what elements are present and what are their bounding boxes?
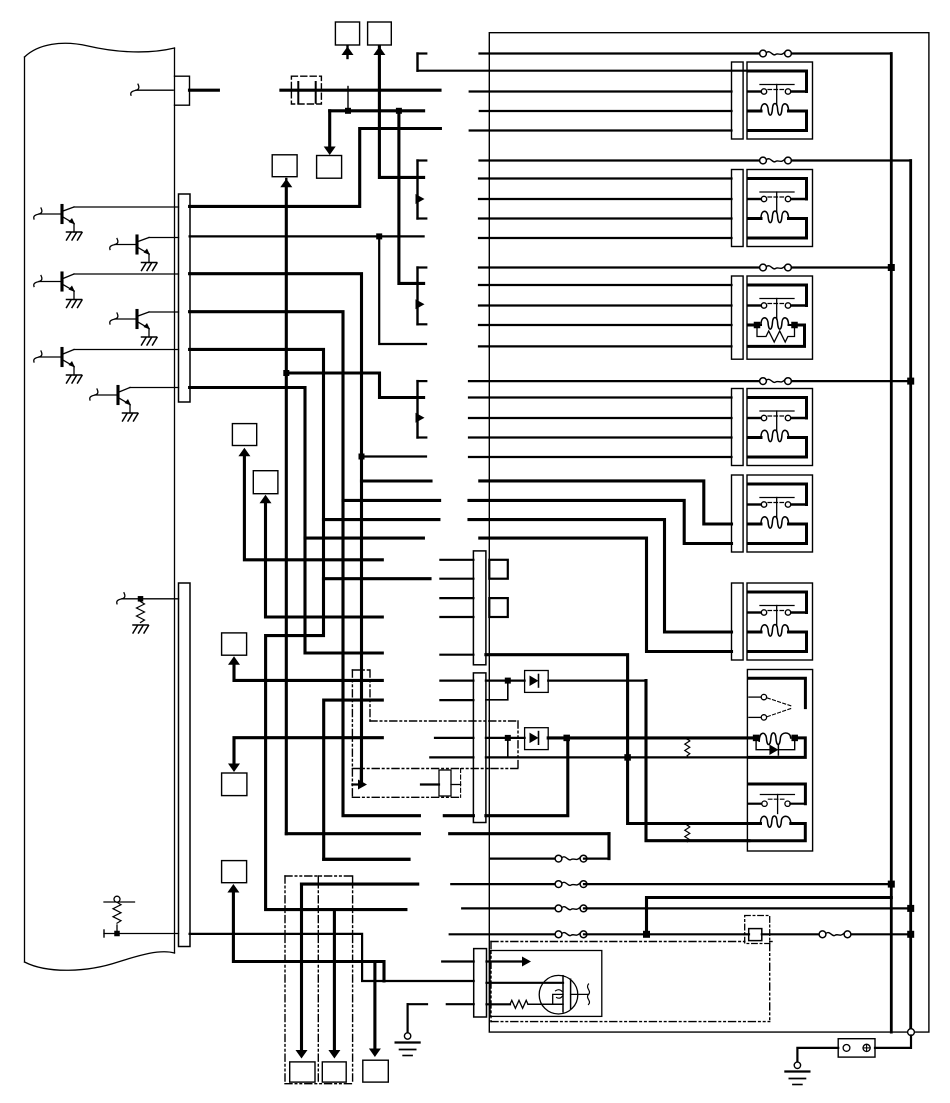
wire row to RL6 return [440,654,473,656]
resistor R1 with ground [117,593,125,604]
wire W2 drop [399,111,424,284]
fuse F1 [291,76,321,104]
wire row 859 [324,858,409,861]
connector G [222,633,247,655]
connector C [317,156,342,179]
jumper link J1 [489,560,508,579]
arrow into E [238,448,250,457]
transistor Q4 [110,313,118,324]
relay RL4 [732,389,744,466]
connector H [222,773,247,796]
wire jog to RL5 coil [480,481,732,524]
fuse FB1 [607,834,610,859]
connector A [335,22,359,45]
connector strip C3 [179,583,191,947]
wires to RL4 pins [469,396,732,398]
wires to RL2 pins [479,177,732,179]
wire row Q4 drop V4 [190,312,440,501]
resistor R3 parallel [685,739,690,756]
wire row Q5 drop V3 [190,349,439,519]
wire Q4 collector [149,311,179,313]
arrow into D [280,179,292,188]
wire drop to R3 coil row [379,236,426,344]
wire Q3 collector [74,273,179,275]
wire jog to RL6 pin4 [480,538,732,651]
fuse FA1 [480,52,763,54]
ground G2 [396,1041,420,1043]
bracket BR3 [416,268,418,325]
connector strip B1 [473,551,486,665]
wire Q2 collector [149,237,179,239]
connector E [232,424,256,446]
harness boundary lower unit [491,941,745,943]
wire row Q3 drop V5 [190,274,431,481]
wire row coil return [430,756,473,758]
fuse FA2 [480,159,763,161]
transistor Q3 [34,276,42,287]
wire A link [347,87,349,111]
wire riser to bus1 [647,898,892,935]
wire row E [440,559,473,561]
ECM/PCM module outline [25,43,175,57]
fuse FB5 [819,931,826,938]
relay RL2 [732,170,744,247]
wire battery to ground [797,1048,838,1063]
RL7 switch section [749,678,806,707]
wire row to fuse FB1 [286,832,419,835]
wire I stem [233,893,384,982]
jumper link J2 [489,598,508,617]
wire D1 drop to RL8 [646,681,749,841]
relay RL3 [732,276,744,359]
diode D3 parallel [756,738,769,750]
wire E stem [244,456,382,560]
wire R2 row [103,930,105,937]
connector I [222,861,247,883]
wire row H [435,737,473,739]
battery [838,1039,875,1057]
wire G stem [234,665,382,681]
wire row to D2 junction [444,814,473,817]
wire row F [440,616,473,618]
transistor Q2 [110,239,118,250]
wire gate row [487,982,564,984]
connector J3 [363,1060,389,1082]
wire row to relay1 pin1 [418,70,748,72]
RL7 coil return hook [749,738,805,758]
wire B stem [379,47,423,177]
RL8 coil [761,816,791,827]
RL7 coil [759,733,791,745]
relay RL6 [732,583,744,660]
connector F [253,471,278,494]
resistor R2 pull-up [104,901,135,903]
wire jog to RL5 pin4 [469,500,732,543]
arrow into A [346,46,348,58]
bracket BR1 [416,54,418,71]
wire pull-up row to MOSFET unit [190,934,474,981]
connector strip B3 [474,949,487,1017]
connector D [272,155,297,177]
fuse/relay box outline [489,33,929,1032]
RL8 contact section [749,784,806,804]
wire row Q2 to tear [190,235,424,237]
fuse FA4 [469,380,762,382]
resistor R5 [487,1003,511,1005]
wire to ground G2 [407,1004,409,1033]
harness boundary upper [352,669,370,671]
wire tab row [131,84,139,95]
wire drop to J1 [300,884,303,1049]
wire jog to RL6 coil [469,520,732,632]
wire D stem [285,187,288,834]
bracket BR2 [416,161,418,219]
arrow into I [227,884,239,893]
fuse FA3 [479,266,762,268]
wire RL8 coil feed [324,700,409,859]
solid state unit box [490,951,602,1017]
bracket BR4 [416,381,418,437]
transistor Q6 [90,389,98,400]
wire W2 row [330,109,424,112]
arrow marker [360,769,362,785]
bus vertical 2 [909,161,912,1033]
relay unit RL7/RL8 case [747,670,812,852]
wire D branch to connector bracket [286,373,423,398]
wire H stem [234,738,382,763]
wire signal arrow [487,960,523,962]
wire row R1a [440,597,473,599]
arrow into C [328,111,331,149]
wire row B2 jog [440,699,473,701]
connector J1 [290,1062,315,1082]
wire F stem [266,503,383,617]
transistor Q1 [34,208,42,219]
wire row Q6 drop V2 [190,388,424,539]
wire V3 lower jog [324,520,431,579]
arrow into H [228,764,240,773]
wire row fuse FB4 [450,933,558,935]
wire V5 lower [360,481,363,785]
connector tab C1 [175,76,190,105]
transistor Q5 [34,351,42,362]
wire drop to J3 [373,962,376,1048]
wire hot feed row [281,89,440,92]
wire V4 lower [343,500,419,815]
connector strip C2 [179,194,191,402]
wires to RL1 pins [470,90,732,92]
wire row fuse FB2 [302,883,418,886]
wire Q5 collector [74,349,179,351]
ground G1 [785,1070,809,1072]
connector block on row [745,916,770,944]
wire drop to J2 [333,910,336,1049]
wire row G [440,679,473,681]
wires to RL3 pins [479,284,732,286]
wire row I to unit [442,960,474,962]
arrow into F [260,495,272,504]
wire Q6 collector [130,387,179,389]
diode D2 [486,737,525,739]
MOSFET Q7 [539,975,578,1014]
wire branch R4 row [362,455,427,457]
wire row ground path [408,1003,427,1005]
arrow into B [373,47,385,56]
wire W3 [190,129,441,207]
wire row B1-2 [440,578,473,580]
capacitor C10 [421,783,439,785]
connector B [368,22,392,45]
harness boundary bottom-left column [284,876,286,1084]
diode D1 [486,679,525,681]
resistor R4 parallel [685,825,690,842]
connector strip B2 [473,673,486,823]
wire Q1 collector [74,206,179,208]
relay RL5 [732,475,744,552]
bus vertical 1 [890,54,893,1033]
relay RL1 [732,62,744,139]
wire bus2 exit [908,1029,915,1036]
wire V2 lower [305,538,382,653]
wire row fuse FB3 [462,907,558,909]
arrow into G [228,656,240,665]
connector J2 [322,1062,346,1082]
